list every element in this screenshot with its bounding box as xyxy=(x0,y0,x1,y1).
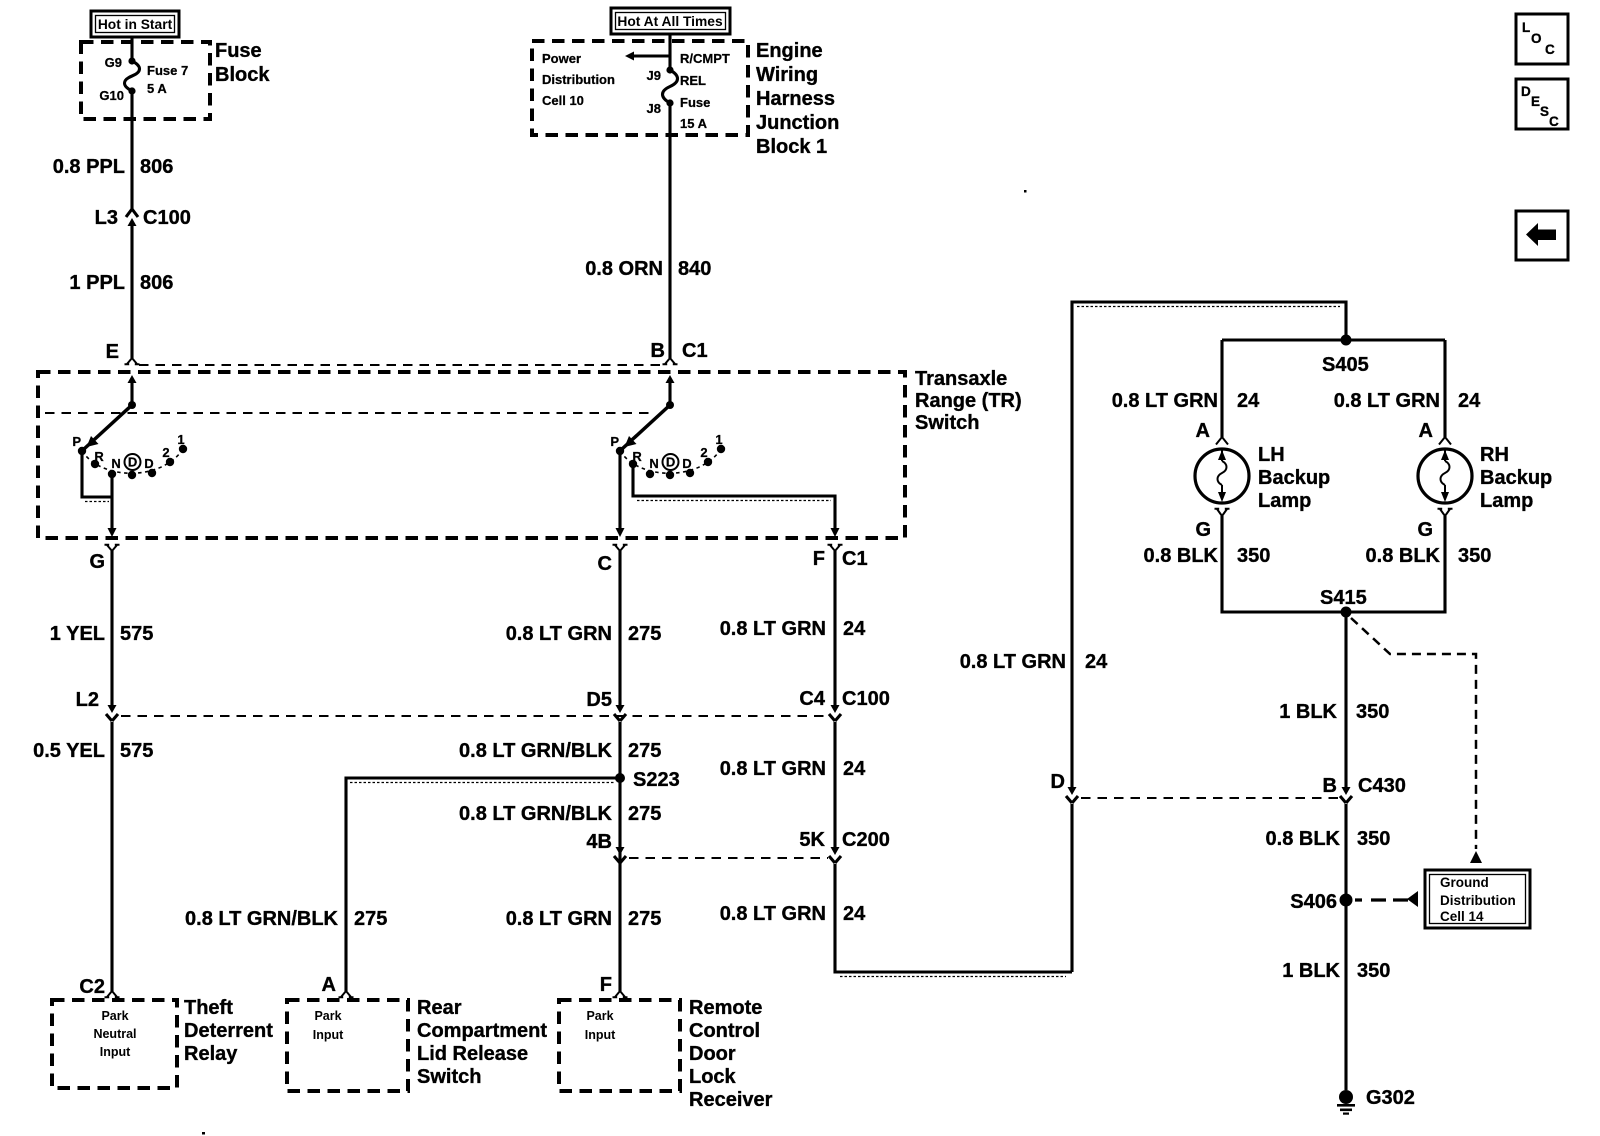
svg-text:Input: Input xyxy=(585,1028,616,1042)
svg-text:1 BLK: 1 BLK xyxy=(1282,960,1340,982)
svg-text:275: 275 xyxy=(628,803,661,825)
svg-text:Neutral: Neutral xyxy=(93,1027,136,1041)
svg-text:Ground: Ground xyxy=(1440,875,1489,890)
svg-text:Hot in Start: Hot in Start xyxy=(98,17,173,32)
svg-text:Input: Input xyxy=(313,1028,344,1042)
svg-text:0.8 BLK: 0.8 BLK xyxy=(1366,545,1441,567)
svg-text:Wiring: Wiring xyxy=(756,64,818,86)
svg-text:0.8 LT GRN: 0.8 LT GRN xyxy=(720,618,826,640)
svg-text:B: B xyxy=(1323,775,1337,797)
svg-text:0.8 LT GRN/BLK: 0.8 LT GRN/BLK xyxy=(459,803,613,825)
svg-text:0.8 BLK: 0.8 BLK xyxy=(1144,545,1219,567)
svg-text:S223: S223 xyxy=(633,769,680,791)
svg-text:Relay: Relay xyxy=(184,1043,238,1065)
svg-text:Lamp: Lamp xyxy=(1480,490,1533,512)
svg-text:L: L xyxy=(1522,20,1530,35)
svg-text:J9: J9 xyxy=(647,68,661,83)
svg-text:RH: RH xyxy=(1480,444,1509,466)
svg-text:B: B xyxy=(651,340,665,362)
svg-text:C1: C1 xyxy=(842,548,868,570)
svg-text:E: E xyxy=(1531,94,1540,109)
svg-text:840: 840 xyxy=(678,258,711,280)
svg-text:A: A xyxy=(1419,420,1433,442)
svg-text:275: 275 xyxy=(628,623,661,645)
svg-text:0.8 LT GRN/BLK: 0.8 LT GRN/BLK xyxy=(459,740,613,762)
svg-text:Lamp: Lamp xyxy=(1258,490,1311,512)
svg-text:C100: C100 xyxy=(143,207,191,229)
svg-text:S405: S405 xyxy=(1322,354,1369,376)
svg-text:24: 24 xyxy=(843,618,866,640)
svg-text:J8: J8 xyxy=(647,101,661,116)
svg-text:Control: Control xyxy=(689,1020,760,1042)
svg-text:Block: Block xyxy=(215,64,270,86)
svg-text:L3: L3 xyxy=(95,207,118,229)
svg-text:Junction: Junction xyxy=(756,112,839,134)
svg-text:G302: G302 xyxy=(1366,1087,1415,1109)
svg-text:G10: G10 xyxy=(99,88,124,103)
svg-text:275: 275 xyxy=(628,740,661,762)
svg-text:Switch: Switch xyxy=(417,1066,481,1088)
svg-text:Engine: Engine xyxy=(756,40,823,62)
svg-text:Park: Park xyxy=(586,1009,613,1023)
svg-text:Park: Park xyxy=(101,1009,128,1023)
svg-text:C: C xyxy=(598,553,612,575)
svg-text:575: 575 xyxy=(120,623,153,645)
svg-text:R/CMPT: R/CMPT xyxy=(680,51,730,66)
svg-text:0.8 LT GRN: 0.8 LT GRN xyxy=(1334,390,1440,412)
svg-text:E: E xyxy=(106,341,119,363)
svg-text:C200: C200 xyxy=(842,829,890,851)
svg-text:Block 1: Block 1 xyxy=(756,136,827,158)
svg-text:24: 24 xyxy=(1237,390,1260,412)
svg-text:0.8 ORN: 0.8 ORN xyxy=(585,258,663,280)
svg-text:Door: Door xyxy=(689,1043,736,1065)
svg-text:Fuse: Fuse xyxy=(215,40,262,62)
svg-text:Cell 14: Cell 14 xyxy=(1440,909,1484,924)
svg-text:D5: D5 xyxy=(586,689,612,711)
svg-text:1 YEL: 1 YEL xyxy=(50,623,105,645)
svg-text:Input: Input xyxy=(100,1045,131,1059)
svg-text:0.8 LT GRN: 0.8 LT GRN xyxy=(720,758,826,780)
svg-text:0.8 LT GRN: 0.8 LT GRN xyxy=(1112,390,1218,412)
svg-text:Deterrent: Deterrent xyxy=(184,1020,273,1042)
svg-text:C1: C1 xyxy=(682,340,708,362)
svg-text:24: 24 xyxy=(1085,651,1108,673)
svg-text:G9: G9 xyxy=(105,55,122,70)
svg-text:C430: C430 xyxy=(1358,775,1406,797)
svg-text:D: D xyxy=(1051,771,1065,793)
svg-text:0.8 LT GRN: 0.8 LT GRN xyxy=(720,903,826,925)
svg-text:C: C xyxy=(1545,42,1555,57)
svg-text:24: 24 xyxy=(843,903,866,925)
svg-text:S406: S406 xyxy=(1290,891,1337,913)
svg-text:Distribution: Distribution xyxy=(1440,893,1516,908)
svg-text:C4: C4 xyxy=(799,688,825,710)
svg-text:Switch: Switch xyxy=(915,412,979,434)
svg-text:Rear: Rear xyxy=(417,997,462,1019)
svg-text:D: D xyxy=(1521,84,1531,99)
svg-text:0.8 BLK: 0.8 BLK xyxy=(1266,828,1341,850)
svg-text:Range (TR): Range (TR) xyxy=(915,390,1022,412)
svg-text:806: 806 xyxy=(140,272,173,294)
svg-text:Theft: Theft xyxy=(184,997,233,1019)
svg-text:Park: Park xyxy=(314,1009,341,1023)
svg-text:0.8 PPL: 0.8 PPL xyxy=(53,156,125,178)
svg-text:0.8 LT GRN: 0.8 LT GRN xyxy=(506,908,612,930)
svg-text:15 A: 15 A xyxy=(680,116,708,131)
svg-text:A: A xyxy=(322,974,336,996)
svg-text:275: 275 xyxy=(354,908,387,930)
svg-text:L2: L2 xyxy=(76,689,99,711)
svg-text:Cell 10: Cell 10 xyxy=(542,93,584,108)
svg-text:806: 806 xyxy=(140,156,173,178)
svg-text:Compartment: Compartment xyxy=(417,1020,547,1042)
svg-text:Transaxle: Transaxle xyxy=(915,368,1007,390)
svg-text:350: 350 xyxy=(1357,960,1390,982)
svg-text:5 A: 5 A xyxy=(147,81,167,96)
svg-text:Power: Power xyxy=(542,51,581,66)
svg-text:C2: C2 xyxy=(79,976,105,998)
svg-text:S: S xyxy=(1540,104,1549,119)
svg-text:Backup: Backup xyxy=(1480,467,1552,489)
svg-text:Distribution: Distribution xyxy=(542,72,615,87)
svg-text:1 BLK: 1 BLK xyxy=(1279,701,1337,723)
svg-text:Backup: Backup xyxy=(1258,467,1330,489)
svg-text:24: 24 xyxy=(843,758,866,780)
svg-text:O: O xyxy=(1531,31,1542,46)
svg-text:Hot At All Times: Hot At All Times xyxy=(617,14,723,29)
svg-text:S415: S415 xyxy=(1320,587,1367,609)
svg-text:0.8 LT GRN: 0.8 LT GRN xyxy=(960,651,1066,673)
svg-text:4B: 4B xyxy=(586,831,612,853)
svg-text:Harness: Harness xyxy=(756,88,835,110)
svg-text:G: G xyxy=(1417,519,1433,541)
svg-text:G: G xyxy=(1195,519,1211,541)
svg-text:5K: 5K xyxy=(799,829,825,851)
svg-text:275: 275 xyxy=(628,908,661,930)
svg-text:C: C xyxy=(1549,114,1559,129)
svg-text:C100: C100 xyxy=(842,688,890,710)
svg-text:LH: LH xyxy=(1258,444,1285,466)
svg-text:A: A xyxy=(1196,420,1210,442)
svg-text:0.8 LT GRN: 0.8 LT GRN xyxy=(506,623,612,645)
svg-text:F: F xyxy=(600,974,612,996)
svg-text:Lock: Lock xyxy=(689,1066,737,1088)
svg-text:350: 350 xyxy=(1458,545,1491,567)
svg-text:575: 575 xyxy=(120,740,153,762)
svg-text:Receiver: Receiver xyxy=(689,1089,773,1111)
svg-text:0.8 LT GRN/BLK: 0.8 LT GRN/BLK xyxy=(185,908,339,930)
svg-text:F: F xyxy=(813,548,825,570)
svg-text:350: 350 xyxy=(1237,545,1270,567)
svg-text:REL: REL xyxy=(680,73,706,88)
svg-text:350: 350 xyxy=(1356,701,1389,723)
svg-text:Lid Release: Lid Release xyxy=(417,1043,528,1065)
svg-text:Fuse: Fuse xyxy=(680,95,710,110)
svg-text:G: G xyxy=(89,551,105,573)
svg-text:1 PPL: 1 PPL xyxy=(69,272,125,294)
svg-text:Remote: Remote xyxy=(689,997,762,1019)
svg-text:350: 350 xyxy=(1357,828,1390,850)
svg-text:Fuse 7: Fuse 7 xyxy=(147,63,188,78)
svg-text:24: 24 xyxy=(1458,390,1481,412)
svg-text:0.5 YEL: 0.5 YEL xyxy=(33,740,105,762)
